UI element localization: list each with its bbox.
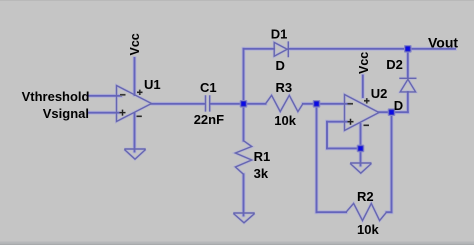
node C junction [388,108,396,116]
svg-text:D: D [394,98,403,113]
svg-text:U2: U2 [371,86,388,101]
Vout node junction [404,45,412,53]
node A junction [240,100,248,108]
svg-text:U1: U1 [144,77,161,92]
svg-text:Vsignal: Vsignal [43,106,89,121]
svg-text:10k: 10k [357,222,379,237]
svg-text:D1: D1 [271,26,288,41]
svg-text:22nF: 22nF [194,112,224,127]
op-amp polarity marks [120,90,370,126]
svg-text:C1: C1 [200,80,217,95]
wire halos [89,49,455,216]
op-amp polarity mark halos [120,90,370,126]
svg-text:D: D [276,58,285,73]
svg-text:10k: 10k [274,113,296,128]
node D junction [357,145,365,153]
svg-text:R3: R3 [276,80,293,95]
svg-text:D2: D2 [386,57,403,72]
symbol halos [117,41,417,222]
svg-text:Vout: Vout [428,34,458,50]
node B junction [313,100,321,108]
svg-text:Vthreshold: Vthreshold [22,89,90,104]
svg-text:Vcc: Vcc [357,52,371,74]
svg-text:3k: 3k [254,166,269,181]
svg-text:R1: R1 [254,149,271,164]
svg-text:R2: R2 [357,189,374,204]
svg-text:Vcc: Vcc [128,33,142,55]
